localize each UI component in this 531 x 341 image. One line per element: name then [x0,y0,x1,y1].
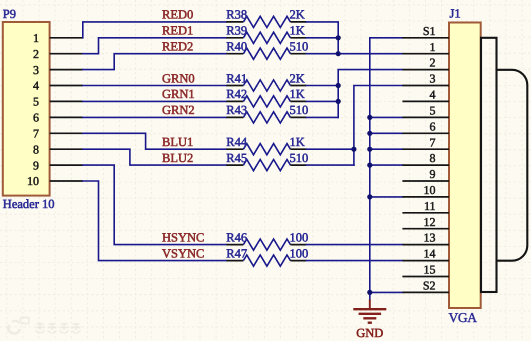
wire GND bus branch to J1 row 6 [370,116,403,118]
svg-text:GND: GND [356,326,383,340]
connector J1 body [449,23,481,309]
svg-text:BLU2: BLU2 [162,151,193,165]
resistor R41 value 2K [226,71,306,91]
svg-text:R44: R44 [226,135,248,149]
svg-text:12: 12 [424,215,436,229]
svg-text:510: 510 [290,103,309,117]
wire VSYNC to J1 pin14 [306,260,402,262]
header P9 pin 10 [27,174,83,188]
wire net BLU2 from P9 pin8 [83,149,227,165]
svg-text:6: 6 [33,111,39,125]
connector J1 pin 4 [402,88,449,102]
wire net VSYNC from P9 pin10 [83,181,227,261]
connector J1 pin 11 [402,199,449,213]
junction GND bus at J1 pin5 [367,115,372,120]
wire GRN summing node vertical to J1 pin2 [338,70,402,118]
svg-text:6: 6 [430,119,436,133]
header P9 pin 8 [33,142,83,156]
wire net BLU1 from P9 pin7 [83,133,227,149]
connector J1 pin 3 [402,72,449,86]
svg-text:2: 2 [430,56,436,70]
header P9 pin 7 [33,127,83,141]
svg-text:13: 13 [424,231,436,245]
wire R40 output to RED node [306,53,338,55]
header P9 pin 9 [33,158,83,172]
connector J1 pin 13 [402,231,449,245]
svg-text:11: 11 [424,199,436,213]
connector J1 pin 7 [402,135,449,149]
svg-text:100: 100 [290,246,309,260]
resistor R39 value 1K [226,24,306,44]
svg-text:RED2: RED2 [162,40,193,54]
connector J1 pin 14 [402,247,449,261]
svg-text:3: 3 [430,72,436,86]
header P9 pin 4 [33,79,83,93]
wire net RED1 from P9 pin2 [83,38,227,54]
svg-text:2: 2 [33,47,39,61]
wire net RED0 from P9 pin1 up to RED0 row [83,22,227,38]
svg-text:GRN1: GRN1 [162,87,195,101]
svg-text:8: 8 [430,151,436,165]
svg-text:1K: 1K [290,24,305,38]
header P9 body [3,22,50,196]
svg-text:GRN2: GRN2 [162,103,195,117]
svg-text:510: 510 [290,151,309,165]
svg-text:HSYNC: HSYNC [162,230,204,244]
svg-text:1: 1 [33,31,39,45]
svg-text:RED0: RED0 [162,8,193,22]
junction BLU summing node at R44 output [351,147,356,152]
svg-text:S1: S1 [423,24,436,38]
connector J1 pin 2 [402,56,449,70]
wire net GRN2 from P9 pin6 [83,116,227,118]
wire net GRN1 from P9 pin5 [83,100,227,102]
resistor R46 value 100 [226,230,308,250]
connector J1 D-sub inner flange [481,38,497,292]
wire GND bus branch to S2 [370,291,403,293]
junction GND bus at J1 pin8 [367,163,372,168]
resistor R38 value 2K [226,8,306,28]
svg-text:1: 1 [430,40,436,54]
svg-text:VGA: VGA [449,310,478,325]
resistor R44 value 1K [226,135,306,155]
junction GRN summing node at R42 output [336,99,341,104]
svg-text:R45: R45 [226,151,247,165]
svg-text:3: 3 [33,63,39,77]
svg-text:7: 7 [430,135,436,149]
wire net RED2 from P9 pin3 [83,54,227,70]
svg-text:10: 10 [424,183,436,197]
wire GND bus branch to J1 row 11 [370,196,403,198]
junction GND bus at J1 pin6 [367,131,372,136]
svg-text:VSYNC: VSYNC [162,246,204,260]
wire R45 output to BLU node [306,164,354,166]
wire R39 output to RED node [306,37,338,39]
resistor R45 value 510 [226,151,308,171]
svg-text:1K: 1K [290,135,305,149]
connector J1 pin 15 [402,263,449,277]
wire net GRN0 from P9 pin4 [83,85,227,87]
junction RED summing node at R39 output [336,35,341,40]
junction GND bus at J1 pin7 [367,147,372,152]
svg-text:510: 510 [290,40,309,54]
wire BLU summing node vertical to J1 pin3 [354,86,403,166]
resistor R43 value 510 [226,103,308,123]
junction RED summing node at R40 output [336,51,341,56]
svg-text:9: 9 [430,167,436,181]
wire R42 output to GRN node [306,100,338,102]
wire RED summing node vertical [306,22,338,54]
wire GND bus vertical from S1 [370,38,403,300]
svg-text:GRN0: GRN0 [162,71,195,85]
resistor R40 value 510 [226,40,308,60]
wire HSYNC to J1 pin13 [306,244,402,246]
svg-text:5: 5 [430,104,436,118]
svg-text:14: 14 [424,247,436,261]
svg-text:10: 10 [27,174,39,188]
connector J1 pin 12 [402,215,449,229]
header P9 pin 3 [33,63,83,77]
svg-text:RED1: RED1 [162,24,193,38]
svg-text:R46: R46 [226,230,247,244]
header P9 pin 2 [33,47,83,61]
connector J1 pin S2 [402,279,449,293]
wire R41 output to GRN node [306,85,338,87]
connector J1 pin 1 [402,40,449,54]
connector J1 pin 10 [402,183,449,197]
ground GND power port [353,299,386,339]
resistor R42 value 1K [226,87,306,107]
svg-text:R47: R47 [226,246,247,260]
junction GRN summing node at R41 output [336,83,341,88]
svg-text:8: 8 [33,142,39,156]
wire net HSYNC from P9 pin9 [83,165,227,245]
wire GND bus branch to J1 row 9 [370,164,403,166]
svg-text:P9: P9 [3,7,16,21]
svg-text:R40: R40 [226,40,247,54]
wire GND bus branch to J1 row 8 [370,148,403,150]
svg-text:4: 4 [430,88,436,102]
connector J1 pin 8 [402,151,449,165]
header P9 pin 6 [33,111,83,125]
connector J1 pin S1 [402,24,449,38]
wire GND bus branch to J1 row 7 [370,132,403,134]
svg-text:5: 5 [33,95,39,109]
resistor R47 value 100 [226,246,308,266]
wire RED node to J1 pin1 [338,53,402,55]
svg-text:9: 9 [33,158,39,172]
svg-text:1K: 1K [290,87,305,101]
wire R43 output to GRN node [306,116,338,118]
connector J1 pin 9 [402,167,449,181]
svg-text:R43: R43 [226,103,247,117]
svg-text:Header 10: Header 10 [3,197,55,211]
svg-text:R38: R38 [226,8,247,22]
connector J1 pin 6 [402,119,449,133]
wire R44 output to BLU node [306,148,354,150]
svg-text:S2: S2 [423,279,436,293]
svg-text:R41: R41 [226,71,247,85]
svg-text:15: 15 [424,263,436,277]
junction GND bus at J1 pin S2 [367,290,372,295]
header P9 pin 5 [33,95,83,109]
svg-text:100: 100 [290,230,309,244]
svg-text:2K: 2K [290,71,305,85]
connector J1 pin 5 [402,104,449,118]
header P9 pin 1 [33,31,83,45]
svg-text:R42: R42 [226,87,247,101]
svg-text:J1: J1 [450,7,461,21]
svg-text:BLU1: BLU1 [162,135,193,149]
svg-text:R39: R39 [226,24,247,38]
junction GND bus at J1 pin10 [367,194,372,199]
svg-text:2K: 2K [290,8,305,22]
svg-text:7: 7 [33,127,39,141]
connector J1 D-sub outer shell [497,70,528,261]
svg-text:4: 4 [33,79,39,93]
